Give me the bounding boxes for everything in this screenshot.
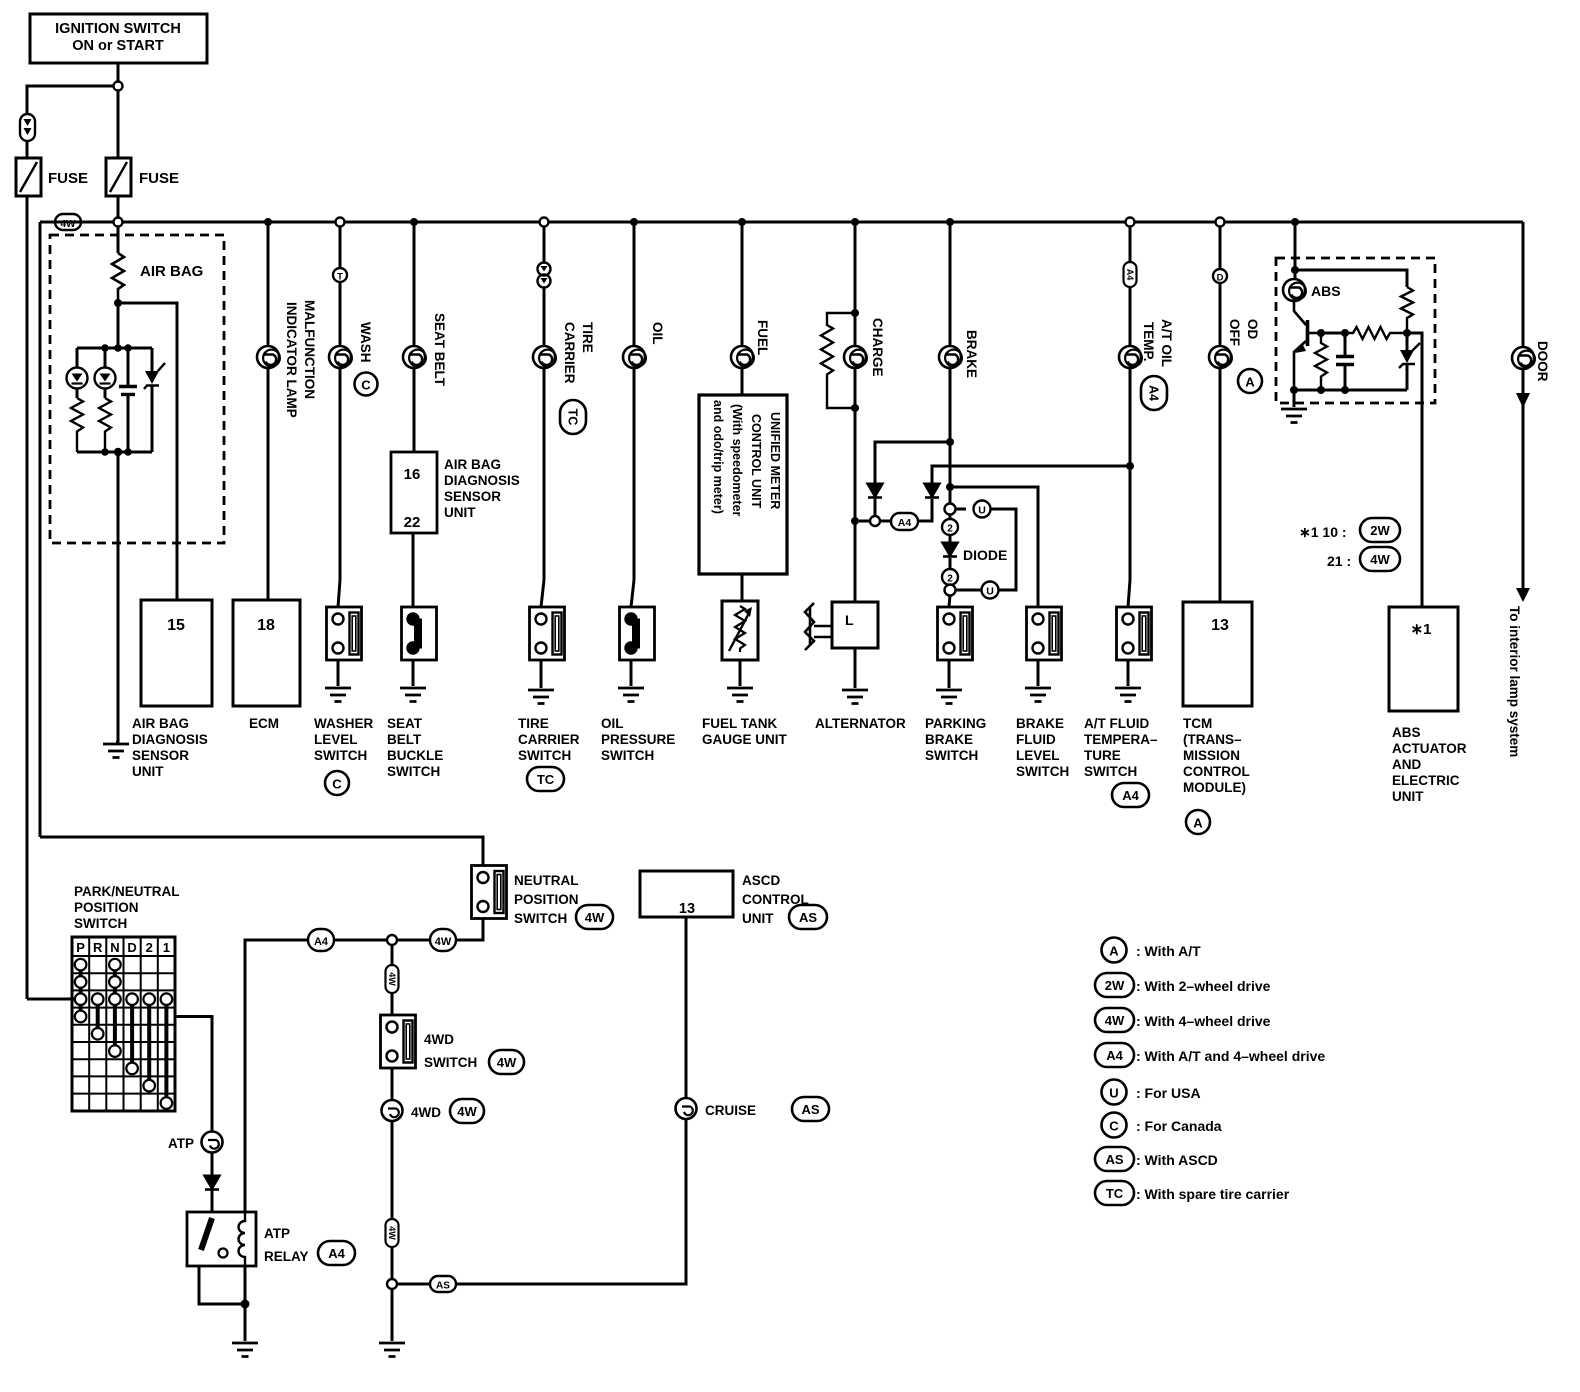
node bus fuel column [738,218,746,226]
node bus tire carrier column [540,218,549,227]
svg-text:(TRANS–: (TRANS– [1183,732,1242,747]
svg-text:WASH: WASH [358,322,373,363]
svg-text:4W: 4W [387,1226,397,1240]
wire fuse F2 to bus [117,196,120,218]
wire capsule to AS junction [391,1247,394,1279]
ground alternator [842,690,868,704]
svg-text:4W: 4W [435,936,452,948]
svg-text:A: A [1109,944,1119,959]
svg-text:L: L [845,612,854,628]
svg-text:A4: A4 [1147,385,1161,401]
node open circle below diode [945,585,956,596]
node bus A/T oil temp column [1126,218,1135,227]
svg-text:U: U [986,586,994,598]
svg-text:AS: AS [799,910,817,925]
lamp brake [939,346,962,368]
transistor ABS lamp driver [1294,301,1321,389]
diode ATP [205,1176,219,1190]
capsule A4 vertical on A/T column [1124,262,1137,287]
capacitor in air bag box [119,348,137,452]
svg-text:UNIT: UNIT [132,764,164,779]
capsule 4W on bus left [55,214,81,230]
node relay ground junction [241,1300,250,1309]
U connector lower [982,582,999,599]
wire 22 to buckle switch [412,533,415,607]
wire tire column top [543,227,546,263]
air bag diagnosis sensor unit box 15 [132,600,212,779]
wire to wash lamp [339,282,342,346]
lamp fuel [731,346,754,368]
svg-text:ECM: ECM [249,716,279,731]
svg-text:ABS: ABS [1311,283,1341,299]
svg-text:2: 2 [947,574,953,585]
svg-text:PARKING: PARKING [925,716,986,731]
ground 4WD line [379,1343,405,1357]
svg-text:2: 2 [947,524,953,535]
svg-text:ALTERNATOR: ALTERNATOR [815,716,906,731]
svg-text:INDICATOR LAMP: INDICATOR LAMP [284,302,299,418]
svg-text:FLUID: FLUID [1016,732,1056,747]
svg-text:A4: A4 [1122,788,1139,803]
wire A4 capsule to ATP relay coil [245,940,308,1212]
svg-text:AND: AND [1392,757,1421,772]
svg-text:22: 22 [404,514,421,531]
node bus oil column [630,218,638,226]
wire lamp to ECM [267,368,270,600]
svg-text:DOOR: DOOR [1535,341,1550,382]
svg-text:To interior lamp system: To interior lamp system [1507,606,1522,757]
ground seat belt buckle switch [400,688,426,702]
wire brake column [949,222,952,346]
svg-text:2: 2 [146,940,153,955]
ground ABS circuit [1281,409,1307,423]
svg-text:: For Canada: : For Canada [1136,1118,1222,1134]
wire seat belt column [413,222,416,346]
wire neutral switch bottom [456,919,483,941]
grid contact circles [75,959,172,1109]
svg-text:BRAKE: BRAKE [925,732,973,747]
wire alternator to ground [854,648,857,688]
wire meter unit to fuel gauge [741,574,744,601]
svg-text:UNIT: UNIT [1392,789,1424,804]
wire to OD lamp [1219,283,1222,346]
wire OD column top [1219,227,1222,270]
wire brake fluid switch to ground [1037,660,1040,686]
svg-text:POSITION: POSITION [74,900,139,915]
svg-text:PRESSURE: PRESSURE [601,732,675,747]
svg-text:SWITCH: SWITCH [387,764,440,779]
zener diode in air bag box [144,348,165,452]
wire to A/T lamp [1129,287,1132,346]
svg-text:: With ASCD: : With ASCD [1136,1152,1218,1168]
wire diode up and right to A/T column [932,466,1130,484]
svg-text:: With A/T and 4–wheel drive: : With A/T and 4–wheel drive [1136,1048,1325,1064]
svg-text:AS: AS [801,1102,819,1117]
connector circle 2 lower [942,569,958,585]
svg-text:TIRE: TIRE [518,716,549,731]
wire left fuse column down [26,196,29,999]
node base junction 2 [1341,329,1349,337]
wire ABS rail to ground [1293,390,1296,407]
lamp malfunction indicator [257,346,280,368]
svg-text:TIRE: TIRE [580,322,595,353]
svg-text:A4: A4 [1125,269,1135,281]
svg-text:DIAGNOSIS: DIAGNOSIS [444,473,520,488]
wire to parking brake switch [949,596,950,608]
wire to brake fluid level switch [950,487,1038,607]
ignition switch box [30,14,207,63]
wire diode to relay [211,1190,214,1212]
svg-text:21 :: 21 : [1327,553,1351,569]
svg-text:4W: 4W [61,219,77,230]
bus node at fuse column [114,218,123,227]
node bus wash column [336,218,345,227]
wire A/T lamp to switch [1129,368,1132,580]
resistor ABS pullup [1401,287,1413,333]
svg-text:BELT: BELT [387,732,422,747]
wire base junction to ABS actuator [1407,333,1422,607]
squib network top rail [77,347,152,350]
lamp oil [623,346,646,368]
wire cruise to ASCD unit [685,917,688,1098]
wire bus corner to door lamp [1522,222,1525,346]
node charge to diode line [851,517,859,525]
wire AS capsule to cruise column [456,1119,686,1284]
ground A/T fluid temperature switch [1115,688,1141,702]
4WD switch [381,1015,416,1068]
svg-text:CHARGE: CHARGE [870,318,885,377]
svg-text:∗1 10 :: ∗1 10 : [1299,524,1347,540]
wire lamp to 16 box [413,368,416,452]
capsule A4 on diode line [891,513,918,530]
squib network bottom rail [77,451,152,454]
arrow below door lamp [1522,370,1525,393]
wire resistor to squib network [117,303,120,348]
circle A below OFF [1238,369,1262,393]
ground ATP relay [232,1343,258,1357]
diode bypass upper wire with U connector [956,508,967,511]
connector circle 2 upper [942,519,958,535]
svg-text:CONTROL UNIT: CONTROL UNIT [749,414,763,509]
svg-text:FUSE: FUSE [48,170,88,187]
fuse F1 (left) [16,158,88,196]
wire fuel column [741,222,744,346]
svg-text:SWITCH: SWITCH [314,748,367,763]
alternator symbol [805,602,878,650]
ABS dashed box [1276,258,1435,403]
wire oil column [633,222,636,346]
connector circle T wash [333,268,347,283]
capsule A4 vertical below TEMP [1141,376,1167,410]
svg-text:NEUTRAL: NEUTRAL [514,873,579,888]
node base junction 1 [1317,329,1325,337]
svg-text:ABS: ABS [1392,725,1421,740]
svg-text:FUEL TANK: FUEL TANK [702,716,777,731]
svg-text:BUCKLE: BUCKLE [387,748,443,763]
wire washer switch to ground [337,660,340,686]
node open circle 4WD junction [387,935,397,945]
svg-text:IGNITION SWITCH: IGNITION SWITCH [55,21,181,37]
wire charge column [854,222,857,346]
wire base junction to cap junction [1321,332,1345,335]
svg-text:TC: TC [1106,1186,1124,1201]
svg-text:2W: 2W [1105,978,1125,993]
lamp OD OFF [1209,346,1232,368]
svg-text:MALFUNCTION: MALFUNCTION [302,300,317,399]
svg-text:SEAT BELT: SEAT BELT [432,313,447,387]
wire junction to AS capsule [397,1283,430,1286]
wire relay switch pin to ground junction [199,1266,245,1304]
ground oil pressure switch [618,688,644,702]
svg-text:UNIT: UNIT [742,911,774,926]
wire charge lamp to alternator [854,368,857,408]
node bus OD OFF column [1216,218,1225,227]
wire capsule to second diode [918,499,932,521]
capsule 4W vertical lower [386,1219,399,1247]
svg-text:: With 4–wheel drive: : With 4–wheel drive [1136,1013,1271,1029]
diode charge branch [868,484,882,498]
svg-text:ATP: ATP [168,1136,194,1151]
wire bus to air bag resistor [117,227,120,254]
wire from ignition switch [117,63,120,82]
svg-text:: With 2–wheel drive: : With 2–wheel drive [1136,978,1271,994]
fuel tank gauge unit symbol [722,601,758,660]
svg-text:16: 16 [404,466,421,483]
wire to tire lamp [543,288,546,347]
legend [1095,938,1325,1206]
wire wash column top [339,227,342,269]
lamp door [1512,347,1535,369]
svg-text:U: U [1109,1086,1118,1101]
svg-text:CRUISE: CRUISE [705,1103,756,1118]
wire ATP connector to diode [211,1153,214,1177]
svg-text:ATP: ATP [264,1226,290,1241]
svg-text:: With spare tire carrier: : With spare tire carrier [1136,1186,1290,1202]
node ABS top junction [1291,266,1299,274]
svg-text:PARK/NEUTRAL: PARK/NEUTRAL [74,884,180,899]
svg-text:DIODE: DIODE [963,547,1007,563]
lamp tire carrier [533,346,556,368]
ground parking brake switch [936,690,962,704]
svg-text:SWITCH: SWITCH [424,1055,477,1070]
svg-text:and odo/trip meter): and odo/trip meter) [711,400,725,514]
svg-text:RELAY: RELAY [264,1249,309,1264]
wire to diode [949,515,952,520]
svg-text:FUSE: FUSE [139,170,179,187]
svg-text:TEMP.: TEMP. [1141,322,1156,362]
svg-text:4W: 4W [1370,552,1390,567]
node charge resistor bottom [851,404,859,412]
squib 2 (circle with diode) [95,348,116,398]
svg-text:P: P [76,940,85,955]
lamp charge [844,346,867,368]
svg-text:UNIFIED METER: UNIFIED METER [768,412,782,509]
svg-text:2W: 2W [1370,523,1390,538]
node at ignition feed [114,82,123,91]
node charge resistor top [851,309,859,317]
svg-text:LEVEL: LEVEL [1016,748,1060,763]
wire oil switch to ground [630,660,633,686]
wire 4WD indicator down [391,1121,394,1219]
svg-text:CONTROL: CONTROL [1183,764,1250,779]
resistor below squib 1 [71,398,83,452]
wire branch to sensor unit [118,303,177,600]
svg-text:D: D [127,940,136,955]
node resistor/zener junction [1403,329,1411,337]
capsule 4W vertical upper [386,965,399,993]
ground washer level switch [325,688,351,702]
svg-text:BRAKE: BRAKE [1016,716,1064,731]
svg-text:TURE: TURE [1084,748,1121,763]
svg-text:LEVEL: LEVEL [314,732,358,747]
wire bus-left drop to neutral position switch [40,837,483,866]
svg-text:∗1: ∗1 [1411,621,1432,638]
parking brake switch [938,607,973,660]
capsule 4W on neutral line [430,929,456,951]
node open circle above diode [945,504,956,515]
wire A/T switch to ground [1127,660,1130,686]
park/neutral position switch grid [72,937,175,1111]
svg-text:R: R [93,940,103,955]
wire wash lamp to washer switch [339,368,342,580]
node A/T column diode line [1126,462,1134,470]
node brake to left diode branch [946,438,954,446]
wire to interior lamp system [1522,400,1525,588]
svg-text:: With A/T: : With A/T [1136,943,1201,959]
svg-text:ON or START: ON or START [72,38,164,54]
wire capsule to fuse [26,141,29,158]
park/neutral position switch label [74,884,180,931]
wire fuel gauge to ground [739,660,742,686]
svg-text:SEAT: SEAT [387,716,423,731]
wire parking brake switch to ground [948,660,951,688]
wire oil lamp to switch [633,368,636,580]
wire charge node to A4 capsule line [859,520,870,523]
svg-text:SWITCH: SWITCH [925,748,978,763]
svg-text:15: 15 [167,617,185,634]
lamp wash [329,346,352,368]
capsule AS on cruise line [430,1276,456,1292]
svg-text:TCM: TCM [1183,716,1212,731]
svg-text:SWITCH: SWITCH [518,748,571,763]
svg-text:SWITCH: SWITCH [601,748,654,763]
neutral position switch [472,866,507,919]
svg-text:CARRIER: CARRIER [518,732,580,747]
svg-text:POSITION: POSITION [514,892,579,907]
svg-text:C: C [361,378,371,393]
note *1 10 21 [1299,518,1400,571]
svg-text:SWITCH: SWITCH [1084,764,1137,779]
svg-text:ELECTRIC: ELECTRIC [1392,773,1460,788]
svg-text:4WD: 4WD [424,1032,454,1047]
grid contact bars [81,965,167,1103]
svg-text:(With speedometer: (With speedometer [730,404,744,517]
wire ignition node to fuse F2 [117,91,120,159]
svg-text:4W: 4W [457,1104,477,1119]
wire bus-left drop [39,222,42,837]
tire carrier switch [530,607,565,660]
A/T fluid temperature switch [1117,607,1152,660]
ground brake fluid level switch [1025,688,1051,702]
wire tire switch to ground [540,660,543,688]
svg-text:A4: A4 [314,936,329,948]
wire fuel lamp to meter unit [741,368,744,395]
wire grid exit to ATP connector [175,1017,212,1132]
capacitor ABS [1336,333,1354,390]
svg-text:ASCD: ASCD [742,873,781,888]
resistor air bag [112,253,124,302]
svg-text:A: A [1193,816,1203,831]
node open circle AS junction [387,1279,397,1289]
wire to left fuse branch [27,86,114,114]
svg-text:N: N [110,940,119,955]
svg-text:OFF: OFF [1227,319,1242,346]
resistor ABS base horizontal [1345,327,1407,339]
seat belt buckle switch [402,607,437,660]
wire buckle switch to ground [412,660,415,686]
svg-text:WASHER: WASHER [314,716,374,731]
wire ABS top to pullup resistor [1295,270,1407,287]
svg-text:BRAKE: BRAKE [964,330,979,378]
svg-text:AIR BAG: AIR BAG [140,263,203,280]
svg-text:A/T FLUID: A/T FLUID [1084,716,1149,731]
air bag diagnosis sensor unit box 16/22 [391,452,520,533]
brake fluid level switch [1027,607,1062,660]
unified meter control unit box [699,395,787,574]
svg-text:OIL: OIL [650,322,665,345]
lamp seat belt [403,346,426,368]
ATP relay box [187,1212,355,1266]
svg-text:AIR BAG: AIR BAG [132,716,189,731]
svg-text:SENSOR: SENSOR [132,748,189,763]
svg-text:SWITCH: SWITCH [1016,764,1069,779]
node bus seat belt column [410,218,418,226]
svg-text:4W: 4W [585,910,605,925]
squib 1 (circle with diode) [67,348,88,398]
wire 4WD switch to indicator [391,1068,394,1100]
svg-text:FUEL: FUEL [755,320,770,355]
resistor ABS emitter-base vertical [1315,333,1327,390]
wire relay coil pin down [244,1266,247,1341]
ground tire carrier switch [528,690,554,704]
svg-text:D: D [1217,273,1224,284]
svg-text:OD: OD [1245,319,1260,340]
ABS bottom rail [1294,389,1407,392]
wire OD lamp to TCM [1219,368,1222,602]
wire 4WD junction down [391,945,394,965]
svg-text:18: 18 [257,617,275,634]
svg-text:U: U [978,505,986,517]
svg-text:A: A [1245,375,1255,390]
svg-text:OIL: OIL [601,716,624,731]
main bus wire [40,221,1523,224]
fuse F2 (right) [106,158,179,196]
svg-text:DIAGNOSIS: DIAGNOSIS [132,732,208,747]
svg-text:4W: 4W [387,972,397,986]
zener diode ABS [1399,333,1420,390]
connector capsule with arrows [20,114,35,141]
wire AS junction to ground [391,1289,394,1341]
resistor parallel to charge lamp [821,313,855,408]
washer level switch [327,607,362,660]
svg-text:TC: TC [537,772,555,787]
svg-text:C: C [332,777,342,792]
wire capsule to 4WD switch [391,993,394,1015]
wire capsule to junction [397,939,430,942]
svg-text:AS: AS [1105,1152,1123,1167]
circle C wash [355,373,378,396]
wire to diode of charge branch [875,442,950,483]
